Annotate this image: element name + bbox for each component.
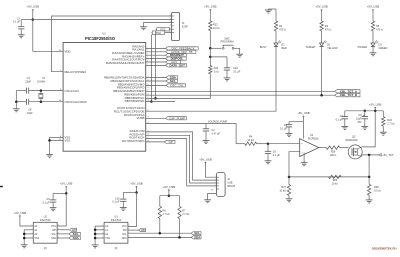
- net tag SDA right: [191, 236, 201, 239]
- wire +5V rail to J1: [33, 19, 172, 21]
- ground C4: [286, 133, 293, 135]
- wire voltage pump: [146, 123, 236, 125]
- junction Vminus node: [288, 176, 291, 179]
- net tag DATA_OUT: [146, 64, 166, 66]
- svg-text:5: 5: [215, 188, 216, 190]
- power +5V_USB (top-left): [27, 4, 39, 19]
- svg-text:TARGET: TARGET: [306, 46, 316, 49]
- capacitor C5 15uF tantalum: [356, 111, 368, 127]
- svg-text:10 kΩ: 10 kΩ: [247, 139, 254, 142]
- ground C24: [224, 77, 231, 79]
- transistor Q2 IRLML6402: [345, 136, 362, 159]
- net tag SDA: [146, 76, 166, 78]
- capacitor C24 0.1uF: [210, 57, 240, 78]
- capacitor C3 22pF: [26, 88, 28, 94]
- wire OSC2: [16, 101, 26, 103]
- svg-text:0.47 µF: 0.47 µF: [212, 133, 221, 136]
- resistor R25 10k: [329, 175, 342, 185]
- net tag WP U3: [128, 229, 139, 231]
- svg-text:OSC_CAL: OSC_CAL: [170, 83, 184, 87]
- svg-text:4: 4: [215, 185, 216, 187]
- svg-text:CBL_TGT_B: CBL_TGT_B: [340, 93, 357, 97]
- svg-text:MCP6001: MCP6001: [308, 137, 319, 140]
- ground SW1: [236, 53, 243, 55]
- ground R24: [380, 131, 387, 133]
- wire to R4: [235, 124, 237, 144]
- svg-text:WP: WP: [141, 228, 146, 232]
- wire R4 to node: [257, 143, 268, 145]
- net tag OSC_CAL: [146, 84, 166, 86]
- svg-text:+5V_USB: +5V_USB: [27, 4, 39, 8]
- wire U2 address pins to ground: [24, 229, 33, 231]
- svg-text:RELAY/VPP/RE3: RELAY/VPP/RE3: [65, 70, 87, 74]
- svg-text:0.1 µF: 0.1 µF: [42, 202, 50, 205]
- ground C1: [18, 34, 25, 36]
- svg-text:IRLML6402: IRLML6402: [345, 139, 358, 142]
- ground C7: [341, 125, 348, 127]
- junction Vin node: [267, 142, 270, 145]
- wire OSC1: [16, 90, 26, 92]
- svg-text:VSS: VSS: [65, 139, 71, 143]
- wire VSS pins: [50, 137, 64, 139]
- svg-text:1: 1: [170, 15, 171, 17]
- svg-text:0.1 µF: 0.1 µF: [280, 127, 288, 130]
- svg-text:SDA: SDA: [122, 237, 127, 240]
- scan mark left edge: [0, 186, 3, 188]
- net tag CBL_TGT_B: [335, 94, 360, 97]
- svg-text:+5V_USB: +5V_USB: [14, 211, 26, 215]
- capacitor C2 0.47uF: [203, 124, 221, 141]
- svg-text:24LC512: 24LC512: [40, 218, 51, 222]
- eeprom U3 24LC512: [102, 215, 129, 250]
- wire U3 address pins to ground: [95, 226, 104, 245]
- LED D3 POWER green: [358, 40, 388, 50]
- connector J1 ICSP: [170, 12, 189, 40]
- resistor R7 2.7k: [178, 196, 190, 238]
- svg-text:DATA_OUT: DATA_OUT: [170, 63, 186, 67]
- svg-text:SDA: SDA: [194, 235, 201, 239]
- svg-text:RA5/AN4/SS/HLVDIN/C2OUT: RA5/AN4/SS/HLVDIN/C2OUT: [106, 61, 145, 65]
- svg-text:16V: 16V: [357, 121, 362, 124]
- svg-text:+5V_USB: +5V_USB: [369, 103, 381, 107]
- svg-text:ICSP: ICSP: [182, 25, 188, 29]
- capacitor C4 0.1uF: [280, 122, 292, 134]
- capacitor C6 0.1uF: [265, 144, 281, 161]
- resistor R26 100: [326, 146, 339, 157]
- svg-text:10 kΩ: 10 kΩ: [213, 27, 220, 30]
- svg-text:0.1 µF: 0.1 µF: [336, 118, 344, 121]
- ground crystal: [13, 108, 20, 110]
- svg-text:1 kΩ: 1 kΩ: [214, 71, 219, 74]
- svg-text:2: 2: [215, 179, 216, 181]
- wire RC6 to USB ID: [146, 139, 217, 186]
- wire feedback: [289, 176, 369, 178]
- resistor R22 10k: [209, 14, 220, 30]
- svg-text:VCC: VCC: [51, 226, 56, 228]
- ground D3: [372, 46, 374, 52]
- svg-text:22pF: 22pF: [27, 112, 33, 115]
- ground opamp: [303, 153, 305, 163]
- ground U2 addr: [21, 244, 28, 246]
- wire R5 to D3: [372, 31, 374, 43]
- svg-text:SCL: SCL: [51, 234, 56, 236]
- net tag RESONATOR: [146, 54, 166, 56]
- wire U2 VCC: [57, 193, 66, 226]
- connector J2 USB MINI-B: [211, 173, 235, 197]
- switch SW1 PROGRAM: [210, 37, 239, 54]
- net tag SDA U2: [57, 237, 69, 239]
- ground USB: [204, 199, 211, 201]
- net tag HOOK_OFF_TB: [146, 51, 166, 53]
- microcontroller U1 PIC18F2550/SO: [59, 32, 149, 152]
- svg-text:RED: RED: [281, 47, 286, 50]
- svg-text:VUSB: VUSB: [137, 116, 145, 120]
- ground C2: [203, 140, 210, 142]
- resistor R27 10k to ground: [279, 177, 290, 199]
- capacitor C8 22pF: [26, 99, 28, 105]
- ground C9: [50, 207, 57, 209]
- wire J1 pin3 to ground: [144, 23, 172, 27]
- svg-text:+5V_USB: +5V_USB: [163, 185, 175, 189]
- wire pullup rail: [160, 195, 180, 197]
- eeprom U2 24LC512: [32, 215, 59, 250]
- svg-text:0.1 µF: 0.1 µF: [233, 71, 241, 74]
- svg-text:0.1 µF: 0.1 µF: [273, 154, 281, 157]
- capacitor C7 0.1uF: [336, 111, 348, 127]
- svg-text:10 kΩ: 10 kΩ: [332, 182, 339, 185]
- svg-text:+5V_USB: +5V_USB: [60, 182, 72, 186]
- wire U3 VCC: [128, 193, 137, 227]
- wire drain down: [368, 155, 370, 177]
- wire SDA rail: [128, 236, 191, 238]
- svg-text:SCL: SCL: [170, 79, 176, 83]
- svg-text:20 MHz: 20 MHz: [37, 80, 46, 83]
- junction MCLR node: [209, 56, 212, 59]
- ground U3 addr: [92, 244, 99, 246]
- wire opamp supply: [302, 122, 304, 139]
- resistor R4 10k: [236, 136, 257, 146]
- wire CBL_TGT_B: [146, 94, 335, 96]
- net tag PGC: [157, 27, 169, 31]
- wire SCL rail: [128, 232, 191, 234]
- svg-text:MINI-B: MINI-B: [227, 185, 235, 188]
- svg-text:6: 6: [129, 233, 130, 235]
- svg-text:2.7 kΩ: 2.7 kΩ: [182, 213, 189, 216]
- ground C10: [120, 207, 127, 209]
- junction rail C5: [364, 110, 367, 113]
- svg-text:SDA: SDA: [51, 237, 56, 240]
- svg-text:OSC1/CLKI: OSC1/CLKI: [65, 89, 80, 93]
- LED D2 TARGET yellow: [306, 40, 338, 50]
- svg-text:PIC18F2550/SO: PIC18F2550/SO: [85, 36, 116, 41]
- wire R3 to D2: [321, 31, 323, 43]
- wire crystal ground: [15, 91, 17, 102]
- svg-text:GP: GP: [169, 140, 173, 144]
- wire RC4 to USB D-: [146, 132, 217, 180]
- svg-text:24LC512: 24LC512: [111, 218, 122, 222]
- svg-text:PROGRAM: PROGRAM: [221, 41, 234, 44]
- net tag SCL: [146, 80, 166, 82]
- net tag OSC_FEEDBACK: [146, 47, 166, 49]
- crystal X1 20MHz: [37, 77, 46, 103]
- wire source from rail: [362, 111, 375, 147]
- net tag CBL_TGT_A: [335, 90, 360, 93]
- resistor R6 2.7k: [158, 196, 170, 234]
- wire to opamp minus: [289, 152, 300, 177]
- wire R2 to D1: [275, 31, 277, 43]
- svg-text:+5V_USB: +5V_USB: [204, 4, 216, 8]
- wire to opamp +: [268, 143, 300, 145]
- svg-text:0.1 µF: 0.1 µF: [112, 201, 120, 204]
- svg-text:WP: WP: [123, 230, 127, 232]
- svg-text:RC7/RX/DT/SDO: RC7/RX/DT/SDO: [122, 139, 145, 143]
- svg-text:10 kΩ: 10 kΩ: [374, 189, 381, 192]
- svg-text:+5V_USB: +5V_USB: [367, 4, 379, 8]
- wire VPP to RE3: [52, 16, 172, 72]
- resistor R28 10k to ground: [367, 177, 380, 200]
- svg-text:10 kΩ: 10 kΩ: [279, 189, 286, 192]
- ground R27: [286, 198, 293, 200]
- junction feedback right: [368, 176, 371, 179]
- svg-text:[2]: [2]: [44, 248, 47, 250]
- resistor R2 470: [274, 9, 286, 32]
- ground BUSY (top): [265, 9, 272, 11]
- wire rail: [345, 110, 384, 112]
- wire PGC vertical to RB6: [155, 31, 157, 98]
- wire gate: [340, 147, 349, 149]
- resistor R5 470: [371, 14, 383, 31]
- junction switch: [209, 47, 212, 50]
- svg-text:+5V_USB: +5V_USB: [297, 111, 309, 115]
- svg-text:CAP_PUMP: CAP_PUMP: [169, 116, 185, 120]
- net tag DISPOSAL: [146, 58, 166, 60]
- svg-text:2.7 kΩ: 2.7 kΩ: [387, 122, 394, 125]
- wire D2 down: [321, 46, 323, 95]
- svg-text:RB7/KBI3/PGD: RB7/KBI3/PGD: [125, 99, 145, 103]
- svg-text:YELLOW: YELLOW: [327, 47, 338, 50]
- svg-text:[3]: [3]: [115, 248, 118, 250]
- junction pullup rail: [168, 194, 171, 197]
- svg-text:470 Ω: 470 Ω: [279, 29, 286, 32]
- net tag WP U2: [57, 229, 69, 231]
- svg-text:POWER: POWER: [358, 46, 368, 49]
- net tag PGD: [152, 31, 164, 35]
- ground VSS: [46, 154, 53, 156]
- net tag SCL right: [191, 232, 201, 235]
- svg-text:2.7 kΩ: 2.7 kΩ: [163, 213, 170, 216]
- svg-text:+5V_TGT: +5V_TGT: [382, 153, 394, 157]
- svg-text:3: 3: [170, 21, 171, 23]
- svg-text:2: 2: [170, 18, 171, 20]
- svg-text:4: 4: [170, 24, 171, 26]
- LED D1 BUSY red: [260, 40, 287, 50]
- junction top-left: [32, 18, 35, 21]
- svg-text:WP: WP: [52, 230, 56, 232]
- svg-text:0.1 µF: 0.1 µF: [13, 21, 21, 24]
- svg-text:+5V_USB: +5V_USB: [130, 182, 142, 186]
- svg-text:BUSY: BUSY: [260, 46, 267, 49]
- net tag AUX: [146, 61, 166, 63]
- capacitor C9 0.1uF: [42, 193, 56, 207]
- svg-text:OSC2/CLKO/RA6: OSC2/CLKO/RA6: [65, 100, 88, 104]
- svg-text:22pF: 22pF: [25, 80, 31, 83]
- junction drain: [368, 154, 371, 157]
- svg-text:GREEN: GREEN: [379, 47, 388, 50]
- svg-text:5: 5: [129, 236, 130, 238]
- ground R28: [366, 199, 373, 201]
- svg-text:470 Ω: 470 Ω: [325, 29, 332, 32]
- wire PGD vertical to RB7: [150, 35, 152, 102]
- wire J1 PGD: [151, 32, 171, 34]
- capacitor C10 0.1uF: [112, 193, 126, 208]
- wire switch node down: [209, 48, 211, 57]
- svg-text:VOLTAGE_PUMP: VOLTAGE_PUMP: [208, 120, 228, 123]
- resistor R24 2.7k: [382, 111, 395, 132]
- ground C6: [265, 160, 272, 162]
- junction U2 vcc: [65, 192, 68, 195]
- svg-text:SCL: SCL: [122, 234, 127, 236]
- svg-text:PGD: PGD: [156, 32, 161, 35]
- svg-text:SDA: SDA: [73, 236, 80, 240]
- capacitor C1 0.1uF: [13, 17, 25, 35]
- junction U3 vcc: [135, 191, 138, 194]
- svg-text:ODSXEMOTEK.RU: ODSXEMOTEK.RU: [372, 246, 397, 250]
- wire RB7: [146, 101, 175, 103]
- net tag GP: [146, 141, 165, 143]
- wire USB shield to ground: [208, 194, 217, 200]
- ground J1: [140, 26, 147, 28]
- wire CBL_TGT_A: [146, 90, 335, 92]
- wire drain out: [357, 155, 361, 157]
- net tag SCL U2: [57, 233, 69, 235]
- svg-text:VCC: VCC: [122, 226, 127, 228]
- svg-text:470 Ω: 470 Ω: [376, 29, 383, 32]
- ground C5: [361, 125, 368, 127]
- power flag +5V_TGT: [378, 153, 394, 157]
- wire rail to C1: [21, 19, 33, 21]
- op-amp U2 MCP6001: [300, 134, 320, 156]
- wire C3 to OSC1: [29, 90, 63, 92]
- svg-text:VDD: VDD: [65, 50, 71, 54]
- resistor R23 1k: [209, 57, 219, 74]
- wire J1 PGC: [156, 28, 172, 30]
- net tag CAP_PUMP: [146, 117, 166, 119]
- svg-text:VSS: VSS: [35, 238, 40, 240]
- svg-text:100 Ω: 100 Ω: [330, 154, 337, 157]
- svg-text:VSS: VSS: [105, 238, 110, 240]
- wire RC5 to USB D+: [146, 135, 217, 183]
- svg-text:+5V_USB: +5V_USB: [315, 4, 327, 8]
- wire VDD: [33, 20, 63, 52]
- wire R23 to RB6: [146, 74, 211, 99]
- svg-text:+5V_USB: +5V_USB: [199, 157, 211, 161]
- resistor R3 470: [320, 14, 332, 31]
- wire D1 to RC1: [146, 46, 276, 111]
- svg-text:3: 3: [215, 182, 216, 184]
- wire opamp out: [319, 147, 327, 149]
- wire C8 to OSC2: [29, 101, 63, 103]
- svg-text:1: 1: [215, 176, 216, 178]
